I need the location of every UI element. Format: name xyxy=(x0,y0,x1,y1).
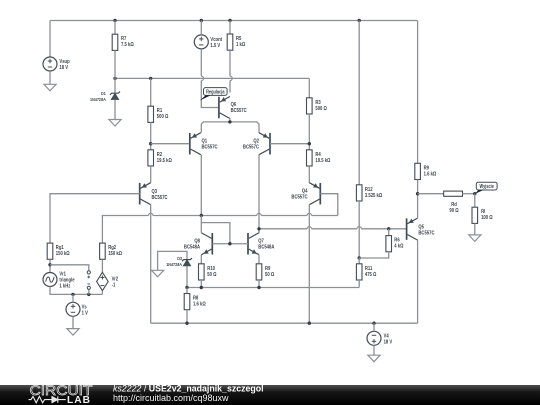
voltage source V4 xyxy=(367,331,381,345)
svg-text:1N4728A: 1N4728A xyxy=(90,96,106,102)
wire Q6 collector to emitter rail xyxy=(229,119,231,122)
resistor R3 xyxy=(307,98,313,114)
wire Vcont top xyxy=(200,21,202,35)
label Vcont 1.5 V xyxy=(210,37,222,50)
wire R5 down with hop xyxy=(230,50,232,92)
wire Vsup drop xyxy=(49,21,51,58)
wire Vr2 bottom xyxy=(101,291,103,295)
vcvs Vr2 xyxy=(97,272,109,290)
svg-text:R1: R1 xyxy=(157,108,163,115)
svg-text:50 Ω: 50 Ω xyxy=(207,271,216,278)
svg-text:R7: R7 xyxy=(121,36,127,43)
node junction R3-R4-Q2base xyxy=(308,114,311,150)
label Q2 BC557C xyxy=(243,138,259,151)
label R9 50 Ohm xyxy=(265,265,274,278)
node junction V4 bottom rail xyxy=(372,322,375,325)
svg-text:R9: R9 xyxy=(424,165,430,172)
voltage source Vsup xyxy=(43,57,57,71)
svg-text:D3: D3 xyxy=(177,255,182,261)
node junction R1-rail xyxy=(149,77,152,80)
svg-text:R6: R6 xyxy=(394,237,400,244)
label R1 500 Ohm xyxy=(157,108,169,121)
node junction R7-D1-rail xyxy=(113,77,116,80)
label R7 7.5 kOhm xyxy=(121,36,134,49)
footer url text xyxy=(113,393,229,403)
footer title text xyxy=(113,384,264,394)
node junction D3-R8 xyxy=(185,286,188,289)
wire right rail drop to R9 xyxy=(417,21,419,164)
svg-text:R8: R8 xyxy=(193,295,199,302)
ground Rl xyxy=(469,235,481,242)
voltage source Vs xyxy=(66,302,80,316)
svg-text:Rl: Rl xyxy=(481,209,486,216)
label R5 1 kOhm xyxy=(236,35,245,48)
resistor R11 xyxy=(356,258,362,280)
node junction R8 bottom rail xyxy=(185,322,188,325)
wire vas rail xyxy=(259,227,407,229)
wire Rg2 bottom xyxy=(101,259,103,272)
label D3 1N4728A xyxy=(166,255,182,267)
label V4 18 V xyxy=(384,333,393,346)
wire Vs to ground xyxy=(72,316,74,328)
logo diode xyxy=(47,396,66,402)
resistor R12 xyxy=(356,21,362,202)
label Q6 BC557C xyxy=(231,101,247,114)
label R12 3.525 kOhm xyxy=(365,186,382,199)
svg-text:Q5: Q5 xyxy=(418,224,424,231)
label R8 1.6 kOhm xyxy=(193,295,206,308)
transistor Q7 xyxy=(248,233,259,255)
node top rail junction R7 xyxy=(113,19,116,22)
wire Vcont down with hop xyxy=(201,49,219,108)
wire Q1 collector down xyxy=(200,155,202,216)
node junction R1-R2-Q1base xyxy=(149,122,152,149)
wire R4 to Q4 emitter xyxy=(308,166,310,183)
transistor Q3 xyxy=(140,183,151,205)
transistor Q8 xyxy=(201,233,212,255)
resistor Rg1 xyxy=(47,243,53,259)
svg-text:R2: R2 xyxy=(157,151,163,158)
svg-text:R9: R9 xyxy=(265,265,271,272)
transistor Q1 xyxy=(190,133,201,155)
wire Q8 emitter to R10 xyxy=(200,255,202,264)
svg-text:1 kHz: 1 kHz xyxy=(59,283,70,290)
svg-text:18 V: 18 V xyxy=(59,65,68,72)
node junction R10 bottom xyxy=(200,286,203,289)
svg-text:BC557C: BC557C xyxy=(243,144,259,151)
node top rail junction R12 xyxy=(358,19,361,22)
svg-text:1.6 kΩ: 1.6 kΩ xyxy=(193,301,206,308)
svg-text:Vr1: Vr1 xyxy=(59,271,66,278)
wire sense minus xyxy=(88,289,90,294)
node junction Rg1-Vr1-sense xyxy=(48,263,51,266)
wire D1 to ground xyxy=(114,100,116,120)
wire R12 down xyxy=(358,201,360,258)
svg-text:Q7: Q7 xyxy=(258,238,264,245)
ground D3 xyxy=(152,270,164,277)
svg-text:Wyjscie: Wyjscie xyxy=(480,183,495,189)
svg-text:R4: R4 xyxy=(315,151,321,158)
svg-text:1.5 V: 1.5 V xyxy=(210,43,220,50)
svg-text:4 kΩ: 4 kΩ xyxy=(394,243,403,250)
svg-text:D1: D1 xyxy=(101,90,106,96)
node junction sense minus tap xyxy=(87,293,90,296)
wire Rd right to output node xyxy=(463,193,475,195)
svg-text:R3: R3 xyxy=(315,99,321,106)
svg-text:18 V: 18 V xyxy=(384,339,393,346)
wire Vsup to ground xyxy=(49,71,51,84)
svg-text:19.5 kΩ: 19.5 kΩ xyxy=(315,157,330,164)
wire sense plus xyxy=(50,265,89,271)
label Rl 100 Ohm xyxy=(481,209,493,222)
label Vr1 triangle 1kHz xyxy=(59,271,74,290)
wire Q4 collector down xyxy=(308,205,310,324)
svg-text:100 Ω: 100 Ω xyxy=(481,215,493,222)
svg-text:1 kΩ: 1 kΩ xyxy=(236,41,245,48)
wire Q2 base xyxy=(270,143,309,145)
wire Rd left xyxy=(418,193,444,195)
node junction mirror tie base xyxy=(228,242,231,245)
svg-text:R5: R5 xyxy=(236,35,242,42)
svg-text:R10: R10 xyxy=(207,265,215,272)
node junction Q1 collector mid rail xyxy=(200,214,203,217)
label Rd 90 Ohm xyxy=(449,201,458,214)
label Q3 BC557C xyxy=(152,188,168,201)
node junction Q6 collector on emitter rail xyxy=(228,120,231,123)
resistor Rg2 xyxy=(100,243,106,259)
svg-text:50 Ω: 50 Ω xyxy=(265,271,274,278)
svg-text:Vs: Vs xyxy=(82,304,87,311)
svg-text:7.5 kΩ: 7.5 kΩ xyxy=(121,42,134,49)
wire Q5 collector down xyxy=(417,240,419,323)
vcvs sense terminals xyxy=(87,271,90,290)
svg-text:BC557C: BC557C xyxy=(152,194,168,201)
svg-text:Vr2: Vr2 xyxy=(112,276,119,283)
resistor R5 xyxy=(227,21,233,51)
svg-text:LAB: LAB xyxy=(67,395,91,405)
wire R6 bottom to junction xyxy=(359,252,389,258)
wire D3 cathode loop to ground xyxy=(158,251,187,270)
diode D3 zener xyxy=(182,258,192,266)
wire R2 to Q3 emitter xyxy=(150,166,152,183)
label Vsup 18 V xyxy=(59,59,69,72)
voltage source Vcont xyxy=(194,35,208,49)
wire Vr1 bottom xyxy=(50,287,102,295)
wire R10 bottom xyxy=(200,280,202,288)
label Q7 BC548A xyxy=(258,238,274,251)
node junction R12-R11-R6 xyxy=(358,256,361,259)
svg-text:19.5 kΩ: 19.5 kΩ xyxy=(157,157,172,164)
diode D1 zener xyxy=(110,92,120,100)
svg-text:Q6: Q6 xyxy=(231,101,237,108)
wire R9 bottom xyxy=(258,280,260,288)
label Q5 BC557C xyxy=(418,224,434,237)
wire Rl to ground xyxy=(474,223,476,235)
wire D3 anode down xyxy=(186,266,188,288)
ground D1 xyxy=(109,120,121,127)
label Rg1 150 kOhm xyxy=(56,245,70,258)
svg-text:Q3: Q3 xyxy=(152,188,158,195)
label R6 4 kOhm xyxy=(394,237,403,250)
svg-text:BC557C: BC557C xyxy=(291,194,307,201)
wire Q7 collector up xyxy=(258,229,260,233)
svg-text:Rg2: Rg2 xyxy=(108,245,116,252)
ground Vsup xyxy=(44,84,56,91)
svg-text:-1: -1 xyxy=(112,282,116,289)
wire bottom rail xyxy=(151,322,418,324)
wire Q3 base from Rg1 xyxy=(50,194,140,243)
resistor R10 xyxy=(199,264,205,280)
wire top supply rail xyxy=(50,20,418,22)
node junction Q2-Q7 collectors xyxy=(257,227,260,230)
wire mirror base rail xyxy=(212,243,248,245)
node junction R6 top xyxy=(387,227,390,230)
svg-text:Vcont: Vcont xyxy=(210,37,222,44)
logo LAB xyxy=(67,395,91,405)
ground Vs xyxy=(67,329,79,336)
svg-text:Q2: Q2 xyxy=(253,138,259,145)
resistor R9 mirror xyxy=(256,264,262,280)
label Q4 BC557C xyxy=(291,188,307,201)
svg-text:Rg1: Rg1 xyxy=(56,245,64,252)
svg-text:90 Ω: 90 Ω xyxy=(449,207,458,214)
svg-text:R12: R12 xyxy=(365,186,373,193)
svg-text:Vsup: Vsup xyxy=(59,59,69,66)
label Vr2 -1 xyxy=(112,276,119,289)
node junction Vs tap xyxy=(71,293,74,296)
wire V4 top xyxy=(373,323,375,331)
wire Q3 collector down xyxy=(150,205,152,324)
svg-text:1.6 kΩ: 1.6 kΩ xyxy=(424,171,437,178)
transistor Q5 xyxy=(407,218,418,240)
svg-text:V4: V4 xyxy=(384,333,389,340)
label R2 19.5 kOhm xyxy=(157,151,172,164)
svg-text:BC548A: BC548A xyxy=(258,244,274,251)
svg-text:1 V: 1 V xyxy=(82,310,89,317)
wire Rg1 bottom xyxy=(49,259,51,272)
wire D1 top xyxy=(114,78,116,93)
svg-text:475 Ω: 475 Ω xyxy=(365,271,377,278)
svg-text:Rd: Rd xyxy=(451,201,457,208)
label R4 19.5 kOhm xyxy=(315,151,330,164)
svg-text:3.525 kΩ: 3.525 kΩ xyxy=(365,192,382,199)
svg-text:1N4728A: 1N4728A xyxy=(166,261,182,267)
svg-text:Q8: Q8 xyxy=(194,238,200,245)
svg-text:150 kΩ: 150 kΩ xyxy=(56,251,70,258)
node junction R9-Rd-Q5 xyxy=(416,192,419,195)
node top rail junction Vcont xyxy=(200,19,203,22)
logo CIRCUIT outline xyxy=(30,383,93,399)
wire R11 bottom xyxy=(358,280,360,288)
svg-text:BC548A: BC548A xyxy=(184,244,200,251)
wire mirror bottom rail xyxy=(187,287,359,289)
svg-text:Regulacja: Regulacja xyxy=(206,89,225,95)
node junction R9 bottom xyxy=(257,286,260,289)
ground V4 xyxy=(368,355,380,362)
resistor R8 xyxy=(184,288,190,310)
wire Q2 collector down xyxy=(258,155,260,233)
transistor Q6 xyxy=(219,97,230,119)
label R3 500 Ohm xyxy=(315,99,327,112)
svg-text:BC557C: BC557C xyxy=(231,107,247,114)
resistor R1 xyxy=(148,78,154,122)
svg-text:BC557C: BC557C xyxy=(202,144,218,151)
flag Regulacja xyxy=(200,88,228,101)
svg-text:500 Ω: 500 Ω xyxy=(157,114,169,121)
svg-text:150 kΩ: 150 kΩ xyxy=(108,251,122,258)
wire R8 bottom xyxy=(186,310,188,324)
svg-text:Q4: Q4 xyxy=(302,188,308,195)
node junction Q4 bottom rail xyxy=(308,322,311,325)
resistor R6 xyxy=(386,229,392,252)
wire Q8 collector up xyxy=(200,216,202,233)
svg-text:http://circuitlab.com/cq98uxw: http://circuitlab.com/cq98uxw xyxy=(113,393,229,403)
resistor R9 output xyxy=(415,163,421,179)
wire Vs top xyxy=(72,294,74,302)
transistor Q2 xyxy=(259,133,270,155)
wire mid rail Rg2 to Q4 base xyxy=(102,213,337,243)
transistor Q4 xyxy=(309,183,320,205)
svg-text:BC557C: BC557C xyxy=(418,230,434,237)
resistor R4 xyxy=(307,150,313,166)
svg-text:500 Ω: 500 Ω xyxy=(315,105,327,112)
node output node xyxy=(473,192,476,195)
wire mirror tie xyxy=(201,223,230,244)
label Q8 BC548A xyxy=(184,238,200,251)
wire V4 to ground xyxy=(373,345,375,355)
label R10 50 Ohm xyxy=(207,265,216,278)
voltage source Vr1 triangle xyxy=(43,273,57,287)
wire second rail xyxy=(115,78,309,97)
label R9 1.6 kOhm xyxy=(424,165,437,178)
wire R9 to junction xyxy=(417,180,419,194)
node top rail junction R5 xyxy=(228,19,231,22)
label Q1 BC557C xyxy=(202,138,218,151)
resistor Rd xyxy=(444,191,463,196)
wire Q7 emitter to R9 xyxy=(258,255,260,264)
label R11 475 Ohm xyxy=(365,265,377,278)
svg-text:R11: R11 xyxy=(365,265,373,272)
wire Q1 base xyxy=(151,143,189,145)
resistor Rl xyxy=(472,194,478,224)
logo zigzag resistor xyxy=(29,396,48,402)
svg-text:triangle: triangle xyxy=(59,277,74,284)
svg-text:Q1: Q1 xyxy=(202,138,208,145)
label Rg2 150 kOhm xyxy=(108,245,122,258)
wire diff emitter rail xyxy=(201,122,259,133)
label D1 1N4728A xyxy=(90,90,106,102)
wire Q5 emitter up xyxy=(417,194,419,218)
flag Wyjscie xyxy=(475,182,497,194)
resistor R7 xyxy=(112,21,118,79)
wire Q4 base loop xyxy=(320,194,338,216)
label Vs 1 V xyxy=(82,304,89,317)
resistor R2 xyxy=(148,150,154,166)
